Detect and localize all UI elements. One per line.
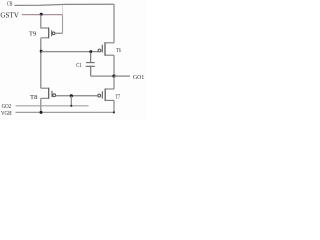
- node junction dot column / T6 gate wire: [40, 50, 43, 53]
- svg-text:GSTV: GSTV: [0, 12, 18, 20]
- wire GO2 horizontal: [16, 105, 89, 107]
- node junction dot C1 tap: [89, 50, 92, 53]
- svg-text:T6: T6: [116, 48, 121, 54]
- wire T8 source vertical to VGH: [40, 98, 42, 112]
- svg-text:GO2: GO2: [2, 103, 12, 110]
- wire T9 drain vertical: [40, 14, 42, 28]
- transistor T6: [98, 42, 114, 55]
- node junction dot GSTV / T9 drain: [40, 13, 43, 16]
- transistor T7: [98, 89, 114, 101]
- wire T9 gate vertical faint upper: [62, 5, 64, 15]
- node junction dot VGH / T7: [113, 111, 115, 113]
- svg-text:T8: T8: [30, 94, 37, 101]
- node junction dot VGH / T8: [40, 111, 43, 114]
- wire T9 gate to vertical: [55, 32, 62, 34]
- wire gate bus T8 to T7: [56, 95, 98, 97]
- svg-text:T7: T7: [116, 94, 121, 100]
- wire T9 gate vertical from GSTV: [62, 15, 64, 34]
- wire VGH horizontal: [16, 111, 114, 113]
- wire C1 bottom to node: [91, 75, 114, 77]
- svg-text:GO1: GO1: [133, 74, 144, 81]
- wire T6 gate horizontal: [41, 51, 98, 53]
- wire GSTV horizontal: [22, 14, 63, 16]
- wire node to T7 drain: [113, 76, 115, 89]
- wire gate bus to GO2: [70, 96, 72, 106]
- transistor T9: [41, 28, 55, 39]
- wire GO1: [114, 75, 130, 77]
- node junction dot GO2: [70, 105, 72, 107]
- node output dot GO1: [112, 75, 115, 78]
- wire CB horizontal: [14, 4, 114, 5]
- svg-text:CB: CB: [7, 1, 12, 7]
- svg-text:C1: C1: [76, 62, 81, 69]
- transistor T8: [41, 88, 56, 99]
- node junction dot gate bus: [70, 94, 73, 97]
- wire left column T9 source to T8 drain: [40, 38, 42, 88]
- wire T6 source vertical to output node: [113, 55, 115, 76]
- wire CB right vertical to T6 drain: [113, 4, 115, 43]
- svg-text:VGH: VGH: [1, 111, 12, 117]
- wire T7 source vertical to VGH: [113, 100, 115, 112]
- capacitor C1: [86, 52, 95, 77]
- svg-text:T9: T9: [29, 30, 36, 37]
